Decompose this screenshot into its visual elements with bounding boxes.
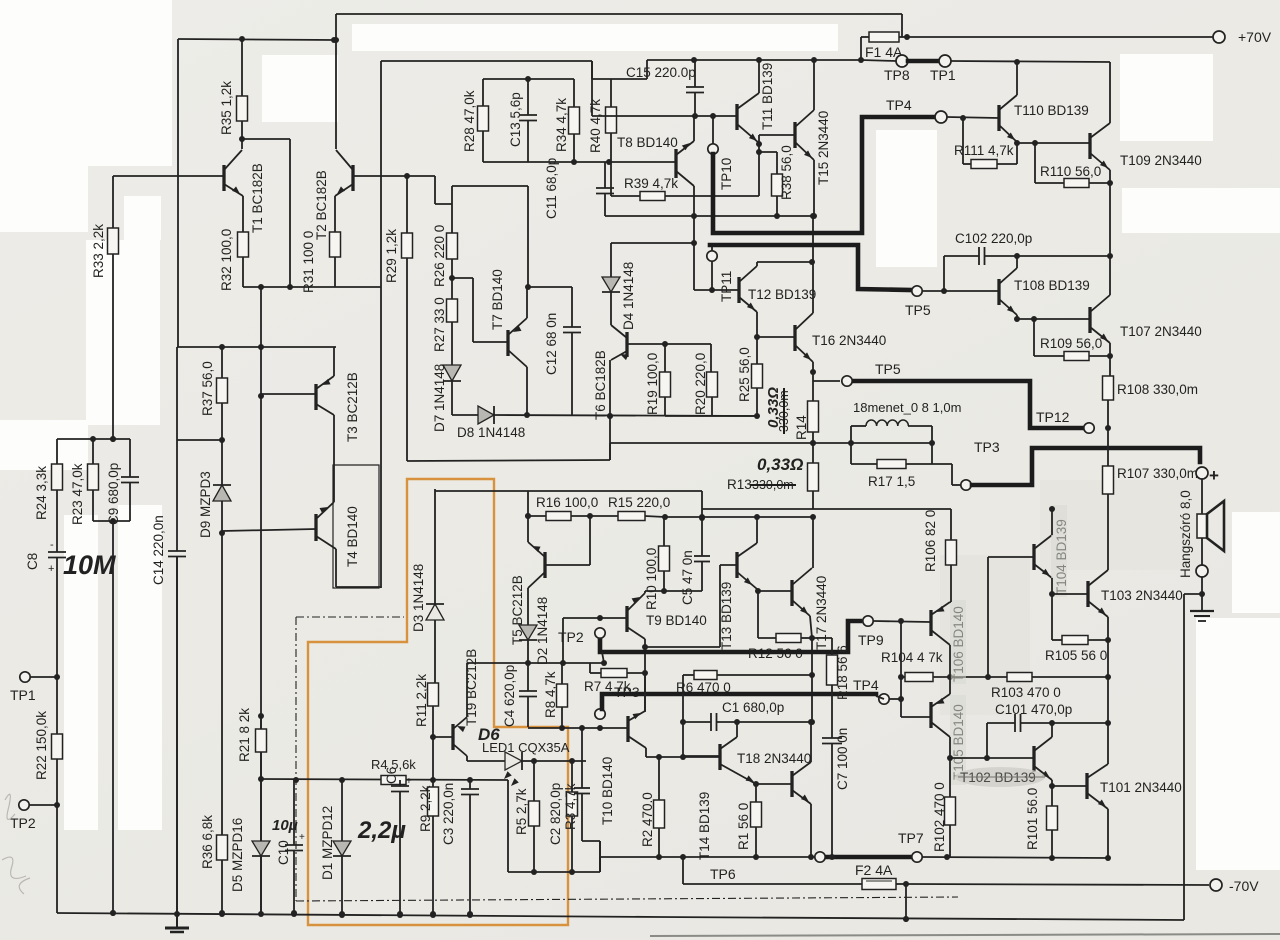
- resistor R104 4,7k: [901, 676, 905, 678]
- transistor T13 BD139: [735, 552, 738, 578]
- wire TP5a stub: [813, 380, 840, 382]
- fuse F1 4A: [861, 36, 869, 38]
- wire T13 emitter node: [755, 588, 761, 594]
- bus x813 middle: [812, 517, 814, 568]
- bias-module outline (orange): [308, 479, 568, 925]
- resistor R1 56,0: [753, 781, 759, 787]
- resistor R18 56,0: [831, 638, 833, 655]
- row y116: [592, 115, 737, 117]
- tail row y287: [243, 286, 381, 288]
- svg-text:R25 56,0: R25 56,0: [737, 347, 752, 402]
- svg-text:R34 4,7k: R34 4,7k: [554, 98, 569, 152]
- svg-text:R22 150,0k: R22 150,0k: [34, 711, 49, 780]
- row y440: [177, 439, 222, 441]
- svg-text:R27 33 0: R27 33 0: [432, 297, 447, 352]
- svg-text:TP6: TP6: [710, 866, 736, 882]
- wire speaker return: [1184, 593, 1202, 595]
- svg-text:R11 2,2k: R11 2,2k: [414, 674, 429, 727]
- svg-text:T13 BD139: T13 BD139: [719, 582, 734, 650]
- svg-text:T108 BD139: T108 BD139: [1014, 278, 1090, 293]
- svg-text:D7 1N4148: D7 1N4148: [432, 364, 447, 432]
- svg-text:T12 BD139: T12 BD139: [748, 287, 816, 302]
- capacitor C15 220,0p: [694, 61, 696, 87]
- resistor R19 100,0: [664, 344, 666, 372]
- row y857 bottom: [600, 856, 828, 858]
- resistor R35 1,2k: [241, 39, 243, 96]
- wire x1108 677-723: [1107, 677, 1109, 723]
- wire TP1 to T110 node: [951, 61, 1110, 62]
- svg-text:+70V: +70V: [1238, 29, 1272, 45]
- node row y39: [178, 39, 336, 40]
- TP5 a: [842, 376, 852, 386]
- wire TP4b-T105 feed: [890, 698, 901, 700]
- svg-text:T10 BD140: T10 BD140: [600, 757, 615, 825]
- wire T15 collector: [813, 61, 815, 110]
- svg-text:R18 56 6: R18 56 6: [835, 645, 850, 700]
- svg-text:T15 2N3440: T15 2N3440: [816, 111, 831, 185]
- wire speaker bottom: [1201, 538, 1203, 566]
- svg-text:R5 2,7k: R5 2,7k: [514, 788, 529, 835]
- row y647: [645, 646, 720, 648]
- svg-text:C2 820,0p: C2 820,0p: [548, 783, 563, 845]
- svg-text:Hangszóró 8,0: Hangszóró 8,0: [1178, 490, 1193, 578]
- node rail2 y61: [381, 60, 592, 62]
- transistor T2 BC182B: [351, 165, 354, 191]
- wire T11 collector: [758, 61, 760, 93]
- svg-text:0,33Ω: 0,33Ω: [757, 455, 803, 474]
- svg-text:D4 1N4148: D4 1N4148: [621, 262, 636, 330]
- transistor T101 2N3440: [1085, 773, 1088, 799]
- svg-text:C102 220,0p: C102 220,0p: [955, 231, 1032, 246]
- svg-text:TP12: TP12: [1036, 409, 1070, 425]
- resistor R21 8,2k: [260, 716, 262, 729]
- svg-text:TP2: TP2: [558, 629, 584, 645]
- diode D3 1N4148: [426, 604, 444, 620]
- wire T108 emitter: [1016, 315, 1018, 319]
- row y509: [702, 508, 951, 510]
- resistor R12 56,0: [776, 634, 801, 643]
- transistor T110 BD139: [997, 105, 1000, 131]
- svg-text:+: +: [299, 832, 305, 843]
- wire y243 row: [611, 242, 694, 244]
- wire T104 base riser: [987, 557, 989, 677]
- T103 base row: [1052, 593, 1088, 595]
- capacitor C102 220,0p: [944, 255, 979, 257]
- svg-text:R23 47,0k: R23 47,0k: [70, 463, 85, 525]
- resistor R110 56,0: [1034, 143, 1036, 183]
- resistor R109 56,0: [1033, 319, 1035, 356]
- inductor right vert: [931, 426, 933, 464]
- TP9: [863, 616, 873, 626]
- capacitor C14 220,0n: [168, 550, 186, 552]
- wire x600 jog: [599, 841, 601, 872]
- bus x381: [380, 61, 382, 287]
- wire T5 emitter: [527, 491, 529, 542]
- resistor R7 4,7k: [589, 663, 591, 673]
- wire T2 collector feed x336: [335, 14, 337, 149]
- resistor R106 82,0: [950, 509, 952, 540]
- resistor R23 47,0k: [92, 439, 94, 464]
- LED1 CQX35A: [466, 756, 468, 761]
- resistor R111 4,7k: [962, 118, 964, 164]
- wire T18 collector: [810, 722, 812, 762]
- transistor T5 BC212B: [543, 552, 546, 578]
- capacitor C1 680,0p: [683, 721, 711, 723]
- wire T5 base: [545, 564, 590, 566]
- wire TP7 to right: [923, 857, 1108, 858]
- wire T19 emitter up: [466, 663, 468, 717]
- transistor T6 BC182B: [625, 332, 628, 357]
- capacitor C5 47,0n: [701, 517, 703, 556]
- module chain border: [296, 616, 404, 618]
- resistor R34 4,7k: [573, 79, 575, 107]
- resistor R37 56,0: [221, 347, 223, 378]
- wire TP3b feed: [932, 463, 952, 465]
- row y727 T10 base: [528, 727, 628, 729]
- svg-text:R109 56,0: R109 56,0: [1040, 336, 1102, 351]
- svg-text:R37 56,0: R37 56,0: [200, 361, 215, 416]
- resistor R3 4,7k: [571, 761, 573, 792]
- capacitor C11 68,0p: [604, 162, 606, 188]
- transistor T19 BC212B: [451, 724, 454, 750]
- wire C102 left to TP5 row: [943, 256, 945, 291]
- resistor R103 470,0: [988, 676, 1007, 678]
- thick TP2 trace: [600, 621, 860, 652]
- wire x702 jog: [701, 491, 703, 518]
- TP1: [939, 55, 951, 67]
- resistor R22 150,0k: [56, 677, 58, 734]
- transistor T1 BC182B: [222, 165, 225, 191]
- row y319: [1017, 318, 1090, 320]
- T19 base: [433, 736, 453, 738]
- wire T8 emitter x694: [693, 116, 695, 141]
- svg-text:R2 470.0: R2 470.0: [640, 792, 655, 847]
- svg-text:T16 2N3440: T16 2N3440: [812, 333, 886, 348]
- wire to speaker: [1201, 479, 1203, 514]
- TP4 a: [935, 111, 947, 123]
- svg-text:C6: C6: [384, 767, 399, 784]
- wire T2 base row: [353, 175, 435, 177]
- transistor T105 BD140: [929, 702, 932, 728]
- svg-text:TP8: TP8: [884, 67, 910, 83]
- TP10: [712, 116, 714, 144]
- resistor R20 220,0: [710, 344, 712, 372]
- wire T14 collector: [736, 722, 738, 737]
- svg-text:C15 220.0p: C15 220.0p: [626, 65, 696, 80]
- inductor 18menet_0 8 1,0m: [851, 425, 866, 427]
- resistor R6 470,0: [683, 674, 694, 676]
- inductor left vert: [850, 426, 852, 464]
- ground at speaker: [1201, 594, 1203, 611]
- svg-text:R35 1,2k: R35 1,2k: [219, 81, 234, 135]
- svg-text:TP7: TP7: [898, 830, 924, 846]
- transistor T18 2N3440: [790, 771, 793, 797]
- svg-text:T3 BC212B: T3 BC212B: [345, 372, 360, 442]
- wire R12 row to R18: [812, 637, 832, 639]
- transistor T108 BD139: [997, 279, 1000, 305]
- diode D8 1N4148: [478, 406, 494, 424]
- TP6: [815, 852, 825, 862]
- T4 label box: [333, 465, 379, 588]
- svg-text:D5 MZPD16: D5 MZPD16: [230, 818, 245, 892]
- wire y415 row: [452, 414, 478, 416]
- wire T110 collector: [1016, 62, 1018, 95]
- svg-text:R32 100,0: R32 100,0: [219, 229, 234, 291]
- wire x683 C1 branch: [682, 675, 684, 722]
- zener D1 MZPD12: [341, 780, 343, 841]
- T3 base row: [261, 393, 316, 395]
- resistor R26 220,0: [434, 176, 436, 204]
- bus x222 to R36: [221, 533, 223, 835]
- fuse F2 4A: [862, 879, 896, 890]
- wire TP4 link: [876, 696, 884, 699]
- resistor R28 47,0k: [482, 79, 484, 106]
- -70V terminal: [1210, 879, 1222, 891]
- wire T104 emitter: [1051, 578, 1053, 594]
- row y663: [467, 662, 604, 664]
- wire T108 collector: [1016, 256, 1018, 268]
- wire T105 collector: [949, 677, 951, 694]
- svg-text:C4 620,0p: C4 620,0p: [502, 665, 517, 727]
- wire TP2 stub to row663: [602, 652, 604, 663]
- svg-text:R20 220,0: R20 220,0: [693, 353, 708, 415]
- svg-text:T11 BD139: T11 BD139: [760, 63, 775, 130]
- resistor R9 2,2k: [432, 737, 434, 780]
- svg-text:T1 BC182B: T1 BC182B: [250, 163, 265, 233]
- svg-text:R19 100,0: R19 100,0: [645, 353, 660, 415]
- svg-text:C101 470,0p: C101 470,0p: [995, 702, 1072, 717]
- speaker plus terminal: [1196, 467, 1208, 479]
- T17 base row: [758, 590, 792, 592]
- svg-text:R29 1,2k: R29 1,2k: [384, 229, 399, 283]
- row y591 T9 emitter: [645, 590, 702, 592]
- row y344 T6 base: [628, 343, 711, 345]
- wire T3-T4 link x334: [333, 415, 335, 502]
- speaker Hangszoro 8,0: [1197, 514, 1207, 538]
- wire LED row to R3: [534, 760, 586, 762]
- wire T102 emitter: [1051, 780, 1053, 786]
- svg-text:C1 680,0p: C1 680,0p: [722, 700, 784, 715]
- TP2 terminal: [19, 800, 29, 810]
- wire riser x563: [562, 618, 564, 663]
- wire T16 emitter x813: [812, 362, 814, 401]
- resistor R31 100,0: [334, 196, 336, 232]
- -70V rail: [906, 884, 1209, 885]
- resistor R17 1,5: [851, 463, 877, 465]
- pencil scribble: [2, 794, 30, 894]
- svg-text:R33 2,2k: R33 2,2k: [91, 224, 106, 278]
- svg-text:T110 BD139: T110 BD139: [1014, 103, 1089, 118]
- svg-text:T18 2N3440: T18 2N3440: [737, 751, 811, 766]
- svg-text:C9 680,0p: C9 680,0p: [106, 463, 121, 525]
- svg-text:+: +: [406, 776, 412, 787]
- wire F2 branch: [682, 857, 684, 884]
- svg-text:R101 56.0: R101 56.0: [1025, 788, 1040, 850]
- wire T10 emitter riser: [644, 673, 646, 711]
- bus x261 down: [260, 287, 262, 913]
- svg-text:TP4: TP4: [886, 97, 912, 113]
- svg-text:+: +: [48, 563, 54, 575]
- svg-text:R107 330,0m: R107 330,0m: [1117, 466, 1198, 481]
- T101 base row: [1052, 785, 1087, 787]
- svg-text:R111 4,7k: R111 4,7k: [954, 143, 1014, 158]
- svg-text:R110 56,0: R110 56,0: [1040, 164, 1101, 179]
- wire T107 collector: [1109, 256, 1111, 295]
- thick TP10-TP4 trace: [713, 117, 934, 233]
- svg-text:R39 4,7k: R39 4,7k: [624, 176, 678, 191]
- svg-text:18menet_0 8 1,0m: 18menet_0 8 1,0m: [853, 400, 961, 415]
- transistor T102 BD139: [1032, 746, 1035, 772]
- wire T1 base row y176: [113, 175, 224, 177]
- svg-text:T4 BD140: T4 BD140: [345, 506, 360, 567]
- capacitor C3 220,0n: [469, 780, 471, 789]
- svg-text:TP3: TP3: [974, 439, 1000, 455]
- wire TP5 to T108 base: [923, 290, 999, 292]
- resistor R5 2,7k: [533, 761, 535, 801]
- resistor R29 1,2k: [406, 176, 408, 233]
- resistor R14 330,0m: [808, 401, 819, 432]
- svg-text:R40 4,7k: R40 4,7k: [588, 99, 603, 153]
- svg-text:TP2: TP2: [10, 815, 36, 831]
- wire T13emitter-R12: [757, 591, 759, 638]
- TP3 b: [961, 480, 971, 490]
- TP3 a: [595, 709, 605, 719]
- +70V terminal: [1213, 31, 1225, 43]
- TP1 terminal: [20, 672, 30, 682]
- TP12: [1084, 423, 1094, 433]
- T102 base row: [950, 757, 987, 759]
- svg-text:R106 82 0: R106 82 0: [923, 510, 938, 572]
- transistor T107 2N3440: [1088, 307, 1091, 333]
- wire x508: [507, 780, 509, 872]
- wire T9 collector riser: [644, 639, 646, 712]
- resistor R24 3,3k: [56, 439, 58, 464]
- svg-text:T6 BC182B: T6 BC182B: [593, 350, 608, 420]
- wire T106 collector: [949, 645, 951, 677]
- svg-text:R16 100,0: R16 100,0: [536, 495, 598, 510]
- resistor R105 56,0: [1051, 594, 1053, 640]
- row y439: [57, 438, 130, 440]
- TP7: [912, 852, 922, 862]
- svg-text:T101 2N3440: T101 2N3440: [1100, 780, 1182, 795]
- wire x592 rail2 to y116: [591, 61, 593, 116]
- svg-text:R38 56,0: R38 56,0: [779, 145, 794, 200]
- svg-text:TP1: TP1: [930, 67, 956, 83]
- bus x177: [177, 39, 179, 347]
- svg-text:R8 4,7k: R8 4,7k: [543, 671, 558, 718]
- bottom rail: [57, 913, 1184, 920]
- wire rail2 to TP8 row: [861, 60, 896, 61]
- wire T4 collector row y588: [335, 549, 337, 587]
- transistor T106 BD140: [929, 610, 932, 636]
- resistor R15 220,0: [590, 515, 618, 517]
- svg-text:TP4: TP4: [853, 677, 879, 693]
- TP8: [896, 55, 908, 67]
- row y416: [665, 415, 757, 417]
- svg-text:R15 220,0: R15 220,0: [608, 495, 670, 510]
- resistor R27 33,0: [447, 299, 458, 322]
- transistor T10 BD140: [626, 716, 629, 742]
- transistor T103 2N3440: [1086, 581, 1089, 607]
- wire T8 collector x694: [693, 186, 695, 290]
- resistor R4 5,6k: [381, 776, 406, 785]
- wire F2 to bottom rail: [905, 884, 907, 919]
- svg-text:D2 1N4148: D2 1N4148: [535, 597, 550, 665]
- resistor R16 100,0: [528, 515, 546, 517]
- svg-text:D8 1N4148: D8 1N4148: [457, 425, 525, 440]
- wire y460 corner: [609, 443, 611, 460]
- svg-text:D1 MZPD12: D1 MZPD12: [320, 806, 335, 880]
- svg-text:T7 BD140: T7 BD140: [490, 269, 505, 330]
- ground symbol: [176, 914, 178, 927]
- thick TP3-TP4 trace: [602, 694, 876, 709]
- svg-text:C11 68,0p: C11 68,0p: [544, 158, 559, 219]
- thick TP11-TP5 trace: [710, 245, 911, 290]
- bus x610: [609, 416, 611, 460]
- svg-text:R102 470 0: R102 470 0: [932, 782, 947, 852]
- TP4 b: [879, 694, 889, 704]
- transistor T14 BD139: [718, 744, 721, 770]
- wire T5 collector to D2: [527, 588, 529, 625]
- transistor T3 BC212B: [314, 384, 317, 410]
- wire T6 emitter down: [609, 360, 611, 416]
- capacitor C2 820,0p: [581, 728, 583, 788]
- transistor T104 BD139: [1032, 544, 1035, 570]
- svg-text:TP1: TP1: [10, 687, 36, 703]
- capacitor C12 68,0n: [527, 286, 572, 288]
- capacitor C4 620,0p: [527, 663, 529, 691]
- svg-text:T8 BD140: T8 BD140: [617, 135, 678, 150]
- resistor R102 470,0: [949, 758, 951, 797]
- wire T7 emitter: [526, 287, 528, 318]
- resistor R108 330,0m: [1103, 376, 1114, 400]
- svg-text:R108 330,0m: R108 330,0m: [1117, 382, 1198, 397]
- svg-text:T5 BC212B: T5 BC212B: [510, 575, 525, 645]
- row y872 LED return: [508, 871, 600, 873]
- thick TP3 to speaker plus: [972, 448, 1200, 485]
- svg-text:2,2μ: 2,2μ: [357, 817, 406, 844]
- transistor T12 BD139: [737, 277, 740, 303]
- svg-text:T107 2N3440: T107 2N3440: [1120, 324, 1202, 339]
- wire TP4 to T110 base: [947, 117, 999, 118]
- capacitor C101 470,0p: [986, 723, 988, 758]
- svg-text:R36 6,8k: R36 6,8k: [200, 815, 215, 869]
- resistor R101 56,0: [1051, 786, 1053, 806]
- T12 base row: [694, 289, 739, 291]
- svg-text:-: -: [50, 539, 54, 551]
- svg-text:C10: C10: [276, 840, 291, 865]
- T4 base row y530: [222, 529, 316, 531]
- TP2: [595, 628, 605, 638]
- wire x528 current source feed: [452, 185, 528, 187]
- wire R108 to R107: [1107, 428, 1109, 466]
- resistor R10 100,0: [663, 517, 665, 546]
- svg-text:T9 BD140: T9 BD140: [646, 613, 707, 628]
- row y756 T14 base: [646, 756, 720, 758]
- capacitor C8: [48, 551, 66, 553]
- svg-text:C3 220,0n: C3 220,0n: [441, 783, 456, 845]
- page edge bottom: [650, 934, 1280, 936]
- resistor R36 6,8k: [217, 835, 228, 860]
- transistor T9 BD140: [625, 606, 628, 632]
- svg-text:TP10: TP10: [719, 158, 734, 190]
- row y143: [1017, 142, 1090, 144]
- svg-text:D3 1N4148: D3 1N4148: [411, 564, 426, 632]
- wire T18 emitter: [810, 804, 812, 857]
- transistor T8 BD140: [674, 149, 677, 178]
- resistor R13 330,0m: [812, 443, 814, 463]
- wire T15 emitter to y216: [813, 160, 815, 216]
